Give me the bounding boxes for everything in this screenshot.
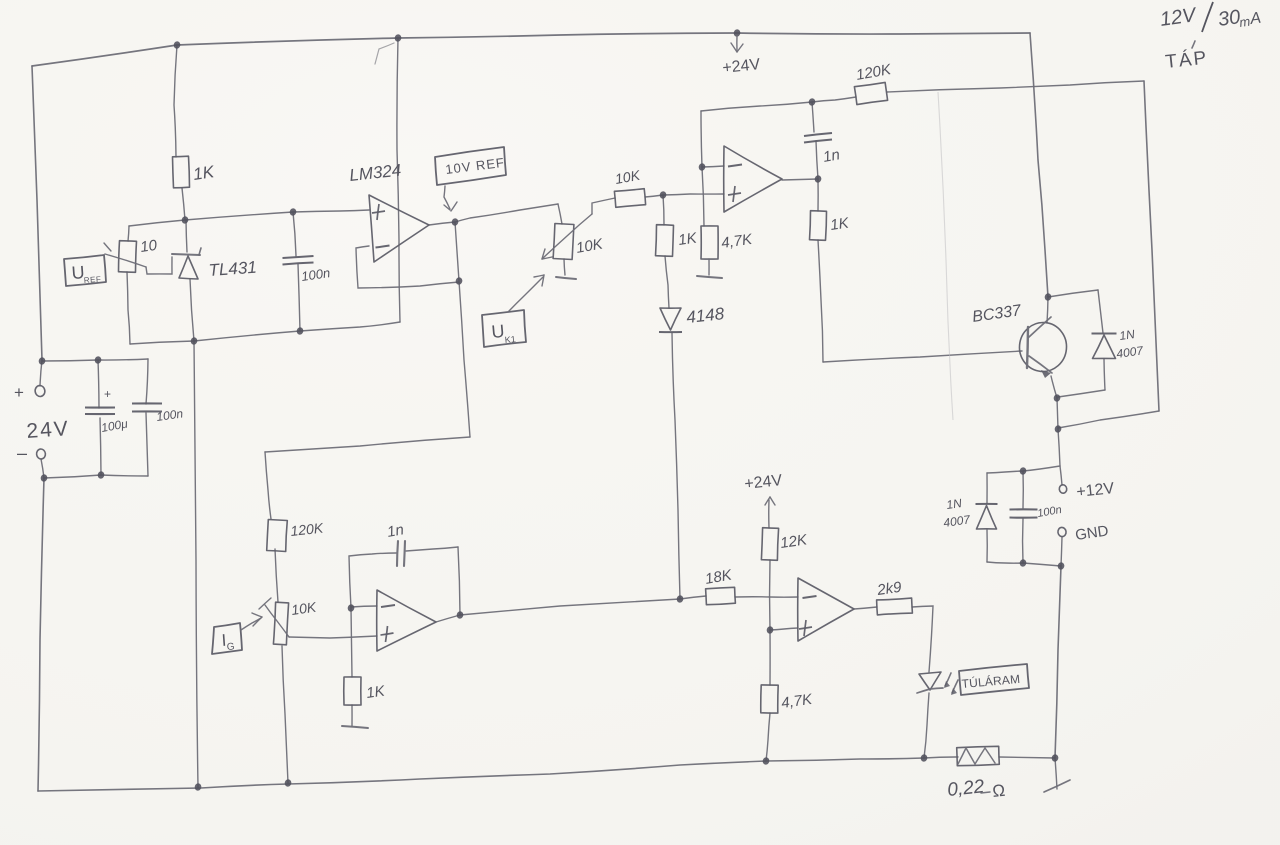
wire stub below bottom right: [1055, 758, 1057, 789]
wire Q1 emitter lead: [1051, 376, 1057, 398]
wire U3 output to 18K: [436, 596, 706, 622]
wire C2 bottom lead: [816, 141, 818, 179]
accent on TAP: [1192, 41, 1195, 48]
terminal + of 24V input: [34, 385, 45, 397]
wire to diode D2 top: [1048, 290, 1098, 297]
terminal - of 24V input: [36, 448, 46, 459]
box label TULARAM: [959, 664, 1029, 695]
wire to 120K R7: [812, 97, 856, 102]
wire TL431 anode lead: [190, 279, 194, 341]
junction top rail / long vertical: [394, 34, 402, 43]
wire 1K bottom lead: [182, 188, 185, 220]
arrowhead +24V lower: [765, 497, 770, 505]
arrow 10V REF: [444, 186, 450, 209]
arrowhead stroke: [451, 202, 457, 211]
wire U3 feedback down: [458, 547, 460, 615]
end tick bottom right: [1044, 780, 1070, 792]
wire D2 bottom lead: [1104, 359, 1105, 390]
arrow U_K1: [508, 277, 543, 312]
svg-text:2k9: 2k9: [875, 579, 903, 599]
junction bottom rail / LED: [920, 754, 928, 763]
arrowhead stroke: [444, 205, 450, 210]
underline before ohm: [981, 792, 990, 793]
capacitor C1 100n: [283, 256, 314, 258]
wire U2 - node down to 4.7K R6: [702, 167, 704, 226]
svg-text:+: +: [14, 383, 24, 402]
junction TL431 bottom: [190, 337, 198, 346]
wiper P1: [105, 254, 146, 267]
junction bottom rail / P3: [284, 779, 292, 788]
wire top rail to Q1 collector: [1030, 33, 1048, 297]
svg-text:+: +: [104, 387, 111, 401]
wire U4 output to 2k9: [854, 607, 877, 609]
arrow +24V down: [736, 36, 738, 50]
op-amp U4 triangle: [798, 578, 854, 641]
wire LED to bottom rail: [924, 693, 929, 758]
junction C1 bottom: [296, 327, 304, 336]
junction U1 feedback: [455, 277, 463, 286]
wire U3 feedback right: [406, 547, 458, 551]
svg-text:K1: K1: [504, 334, 516, 345]
capacitor C4 100n output: [1010, 508, 1038, 510]
junction gnd bus / GND terminal: [1057, 562, 1065, 571]
svg-text:0,22: 0,22: [946, 776, 985, 801]
wire from - terminal: [41, 459, 44, 478]
wire pot P2 wiper jog: [592, 198, 615, 214]
resistor 1K R10: [344, 677, 361, 705]
faint erased pencil line: [938, 92, 953, 420]
wire node to op-amp U4 +: [770, 628, 798, 630]
svg-text:TÁP: TÁP: [1164, 48, 1209, 73]
wire 100n bottom lead: [146, 413, 148, 476]
junction U3 - node: [347, 604, 355, 613]
wire 4.7K R12 bottom lead: [766, 713, 770, 761]
wire 120K R7 to right edge: [887, 81, 1144, 92]
Q1 base bar: [1027, 327, 1028, 368]
wire right edge of feedback box: [1144, 81, 1159, 411]
junction output node: [1019, 467, 1027, 476]
wire D3 bottom lead: [986, 530, 988, 562]
svg-text:1K: 1K: [829, 214, 851, 234]
svg-text:10: 10: [139, 237, 159, 256]
wire U3 1K top lead: [351, 608, 352, 677]
wire P1 wiper to TL431 ref: [146, 257, 172, 274]
LED cathode bar: [917, 688, 943, 693]
capacitor C5 100u electrolytic: [85, 406, 115, 408]
potentiometer P1 10: [119, 241, 137, 273]
arrowhead 1: [944, 681, 950, 688]
wire to transistor Q1 base: [823, 351, 1022, 362]
wire 100u top lead: [98, 360, 99, 408]
junction - input: [40, 474, 48, 483]
op-amp U2 triangle: [724, 146, 782, 212]
wire pot P2 top lead: [558, 204, 562, 224]
svg-text:1K: 1K: [677, 229, 699, 249]
potentiometer P2 10K: [553, 224, 574, 260]
wire C1 bottom lead: [298, 264, 300, 331]
wire 24V input top: [42, 359, 148, 361]
wiper P3: [265, 605, 289, 637]
junction 12K / U4 +: [766, 626, 774, 635]
arrowhead I_G: [252, 613, 262, 617]
title slash: [1202, 2, 1213, 32]
wire emitter to +12V terminal: [1057, 398, 1062, 485]
arrowhead wiper P2: [542, 249, 545, 259]
wire C4 top lead: [1022, 471, 1024, 508]
junction ref rail / C1: [289, 208, 297, 217]
wiper tick P3: [259, 598, 271, 609]
junction emitter / box: [1054, 425, 1062, 434]
wire 1K top lead: [174, 45, 177, 157]
wire to 4.7K R12 top: [769, 630, 771, 685]
box label U_REF: [64, 255, 106, 286]
svg-text:A: A: [1248, 10, 1262, 28]
junction bottom rail / gnd vertical: [1051, 754, 1059, 763]
diode D3 1N4007 output: [976, 503, 998, 505]
wire 120K top lead: [265, 452, 271, 519]
junction gnd bus: [1019, 559, 1027, 568]
wire mid vertical gnd return: [194, 341, 198, 787]
svg-text:1n: 1n: [386, 521, 405, 541]
Q1 emitter arrowhead: [1041, 370, 1051, 378]
resistor 120K R7: [854, 82, 887, 104]
ground pot P2: [556, 277, 576, 279]
wire to 120K lower: [265, 437, 470, 452]
diode D1 4148: [660, 308, 681, 330]
junction bottom rail / 4.7K: [762, 757, 770, 766]
wire diode D3 top lead: [986, 473, 988, 503]
wire to 0.22 ohm: [924, 757, 958, 758]
box label I_G: [212, 623, 242, 654]
svg-text:1K: 1K: [365, 682, 387, 702]
wire 1K R8 to base corner: [818, 240, 823, 362]
wire top +24V rail: [32, 33, 1030, 66]
wire output gnd bus: [987, 562, 1061, 566]
terminal +12V: [1059, 484, 1067, 493]
junction feedback / C2: [808, 98, 816, 107]
junction U3 output: [456, 611, 464, 620]
stray pencil arc: [375, 43, 394, 64]
wire D2 top lead: [1098, 290, 1103, 333]
junction top rail / 1K: [173, 41, 181, 50]
resistor 4.7K R12: [761, 685, 778, 713]
svg-text:1n: 1n: [822, 146, 841, 166]
wire U2 feedback vertical: [701, 111, 702, 167]
op-amp U3 triangle: [377, 590, 436, 651]
capacitor C3 1n (vertical plates): [397, 541, 398, 566]
resistor R15 0.22 ohm: [957, 746, 1000, 765]
wire to + terminal: [40, 360, 42, 386]
wire U1 feedback loop: [356, 246, 459, 288]
wire U2 output: [782, 179, 818, 180]
svg-text:1N: 1N: [1118, 327, 1135, 343]
resistor 120K R9: [267, 520, 288, 552]
box label U_K1: [482, 310, 526, 347]
wiper tick P1: [104, 243, 111, 251]
resistor 1K R8: [810, 211, 827, 241]
wire bottom rail: [38, 758, 924, 791]
wire U2 out to 1K R8: [817, 179, 819, 211]
wire left edge upper: [32, 66, 42, 360]
Q1 collector stroke: [1029, 317, 1051, 337]
arrowhead +24V lower: [770, 497, 775, 505]
resistor 2k9 R14: [877, 598, 913, 615]
wire pot P2 bottom lead: [564, 259, 565, 275]
junction 100u top: [94, 356, 102, 365]
wire U1 output vertical: [455, 222, 470, 437]
junction U2 - node: [698, 163, 706, 172]
ground R10: [342, 726, 368, 728]
wire long vertical from top rail: [397, 38, 400, 322]
arrowhead: [737, 44, 743, 52]
wire collector lead: [1047, 297, 1048, 323]
wire 120K to pot P3: [275, 549, 278, 602]
arrowhead U_K1: [534, 275, 544, 277]
wire +24V arrow to 12K: [768, 500, 770, 528]
wire pot P1 top lead: [128, 226, 129, 241]
wire C1 top lead: [293, 212, 296, 256]
zigzag R15: [958, 748, 995, 764]
junction U2 output: [814, 175, 822, 184]
arrowhead U_K1: [542, 275, 544, 286]
resistor 1K R5: [656, 225, 674, 257]
junction Q1 emitter: [1053, 394, 1061, 403]
wire from 0.22 ohm: [999, 757, 1055, 758]
wire ref rail to op-amp U1 +: [129, 210, 369, 226]
arrow I_G: [241, 618, 261, 630]
wire node to op-amp U2 +: [663, 194, 724, 195]
svg-text:U: U: [491, 321, 506, 342]
wire TL431 cathode lead: [186, 220, 187, 252]
wire 4148 to U3 output node: [672, 333, 680, 599]
junction ref rail / TL431: [181, 216, 189, 225]
resistor 10K R4: [614, 189, 645, 208]
LED light arrow 1: [945, 673, 951, 686]
wiper arrow P2: [543, 214, 592, 258]
capacitor C2 1n: [804, 133, 832, 136]
TL431 U5: [172, 254, 200, 255]
wire U3 - input stub: [351, 606, 377, 607]
wire 100u bottom lead: [100, 418, 101, 475]
wire U2 - input stub: [702, 166, 724, 167]
terminal GND: [1057, 527, 1066, 537]
wire D2 to emitter node: [1058, 390, 1105, 397]
wire 1K R5 to diode 4148: [665, 256, 669, 308]
wire GND terminal lead: [1061, 537, 1062, 566]
Q1 emitter stroke: [1029, 356, 1052, 373]
wire U2 feedback horizontal: [701, 102, 812, 111]
svg-text:4148: 4148: [685, 304, 725, 327]
wire U3 feedback left: [349, 553, 396, 608]
wire left edge lower: [38, 478, 44, 791]
junction U3 out / 4148: [676, 595, 684, 604]
capacitor C6 100n input: [132, 402, 162, 404]
wire 2k9 to LED: [912, 606, 933, 672]
junction Q1 collector: [1044, 293, 1052, 302]
wire gnd vertical to bottom rail: [1055, 566, 1061, 758]
wire output node left: [987, 466, 1060, 473]
junction U2 + node: [659, 191, 667, 200]
wire pot P3 wiper to op-amp U3 +: [289, 636, 377, 638]
op-amp U1 triangle: [369, 195, 429, 262]
resistor 12K R11: [761, 528, 778, 561]
resistor 1K R1: [173, 156, 190, 188]
svg-text:24V: 24V: [26, 417, 71, 443]
arrowhead I_G: [253, 617, 262, 626]
wire 10K to node: [645, 195, 663, 197]
arrowhead 2: [951, 688, 957, 695]
wire 12K bottom lead: [769, 560, 771, 630]
diode D2 1N4007 flyback: [1092, 333, 1117, 335]
potentiometer P3 10K: [273, 602, 288, 645]
wire U3 1K bottom lead: [351, 705, 353, 726]
junction U1 output: [451, 218, 459, 227]
wire pot P3 bottom lead: [282, 646, 288, 783]
wire U1 output to pot P2: [429, 204, 558, 225]
wire 18K to op-amp U4 -: [735, 596, 798, 598]
junction + input: [38, 357, 46, 366]
transistor Q1 BC337: [1017, 321, 1068, 374]
LED D4 overcurrent indicator: [919, 672, 941, 690]
wire 100n top lead: [146, 359, 148, 404]
svg-text:1K: 1K: [192, 162, 216, 184]
arrowhead: [731, 43, 737, 52]
svg-text:G: G: [226, 641, 235, 653]
resistor 18K R13: [706, 587, 736, 604]
wire C2 top lead: [812, 102, 814, 132]
svg-text:TL431: TL431: [208, 258, 257, 280]
wire R6 to ground: [708, 259, 710, 275]
wire pot P1 bottom lead: [127, 272, 130, 344]
wire 24V input bottom: [44, 475, 148, 478]
LED light arrow 2: [952, 680, 958, 693]
junction +24V tap: [733, 29, 741, 38]
svg-text:–: –: [17, 443, 27, 463]
wire box bottom to emitter node: [1058, 411, 1159, 428]
resistor 4.7K R6: [701, 226, 718, 259]
box label 10V REF: [435, 147, 506, 185]
junction bottom rail / mid vertical: [194, 783, 202, 792]
wire C4 bottom lead: [1022, 519, 1024, 563]
ground R6: [697, 276, 722, 278]
svg-text:1N: 1N: [945, 496, 962, 512]
junction 100u bottom: [97, 471, 105, 480]
wire 1K R5 top lead: [663, 195, 664, 225]
svg-text:REF: REF: [84, 275, 102, 285]
arrowhead wiper P2: [542, 257, 552, 259]
wire TL431 bottom rail: [130, 322, 400, 344]
svg-text:Ω: Ω: [991, 781, 1006, 801]
